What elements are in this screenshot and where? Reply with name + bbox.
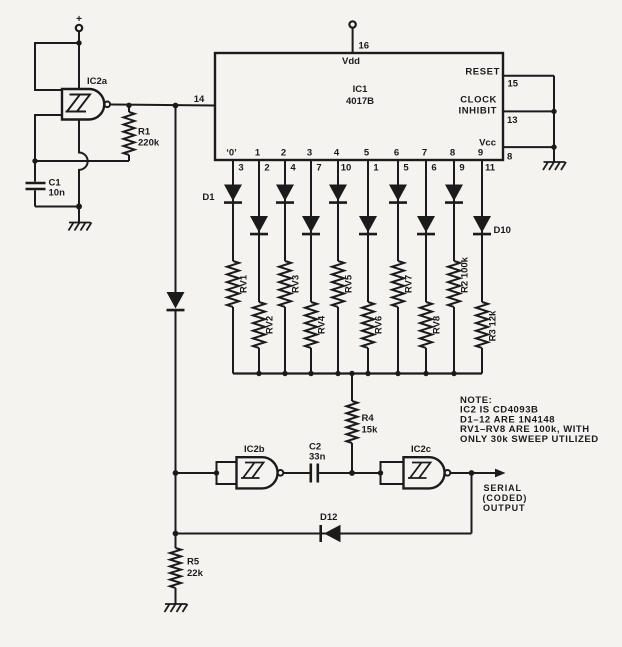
svg-text:2: 2 — [281, 148, 286, 159]
node R5 top junction — [173, 531, 179, 537]
svg-text:R3 12k: R3 12k — [488, 310, 499, 341]
svg-text:15: 15 — [508, 79, 519, 90]
svg-text:RV6: RV6 — [374, 316, 385, 334]
wire pin 8 — [503, 147, 554, 162]
node R1 top junction — [126, 103, 131, 108]
wire output column pin 2 — [258, 160, 260, 374]
svg-text:R2 100k: R2 100k — [460, 256, 471, 293]
svg-text:D1: D1 — [202, 192, 215, 203]
resistor RV4 — [305, 302, 328, 348]
diode D7 — [389, 185, 407, 203]
node RC junction — [32, 158, 37, 163]
wire IC2c output — [450, 472, 471, 474]
wire supply vertical through IC2a — [79, 31, 88, 222]
svg-text:IC2c: IC2c — [411, 444, 431, 455]
resistor R2 100k — [448, 256, 471, 307]
svg-text:IC2b: IC2b — [244, 444, 265, 455]
svg-text:(CODED): (CODED) — [483, 493, 528, 503]
wire clock line long vertical — [175, 106, 177, 534]
svg-text:RV7: RV7 — [404, 275, 415, 293]
wire output down to D12 line — [471, 473, 473, 534]
node ground junction — [76, 204, 82, 210]
svg-text:15k: 15k — [362, 425, 379, 436]
resistor RV3 — [279, 261, 302, 307]
svg-text:R1: R1 — [138, 127, 151, 138]
resistor R4 — [347, 374, 379, 474]
svg-text:RV8: RV8 — [432, 316, 443, 334]
node IC2b input junction — [214, 470, 219, 475]
ground GND1 — [69, 223, 92, 231]
node clock line junction — [173, 103, 179, 109]
wire to IC2a top input — [35, 43, 79, 90]
svg-text:6: 6 — [394, 148, 399, 159]
svg-text:22k: 22k — [187, 568, 204, 579]
pin 14 label — [194, 94, 205, 105]
resistor RV7 — [392, 261, 415, 307]
wire C1 bottom to ground node — [35, 206, 79, 208]
wire C2 to IC2c inputs — [319, 472, 380, 474]
svg-text:16: 16 — [359, 41, 370, 52]
diode D3 — [276, 185, 294, 203]
svg-text:13: 13 — [507, 115, 518, 126]
svg-text:CLOCK: CLOCK — [460, 95, 497, 106]
resistor R1 — [124, 106, 160, 162]
node supply junction — [76, 40, 81, 45]
serial output label — [483, 483, 528, 513]
svg-text:R4: R4 — [362, 413, 375, 424]
svg-text:9: 9 — [478, 148, 483, 159]
svg-text:1: 1 — [255, 148, 261, 159]
diode D9 — [445, 185, 463, 203]
svg-text:8: 8 — [507, 152, 512, 163]
svg-text:RV3: RV3 — [291, 275, 302, 293]
diode D5 — [329, 185, 347, 203]
wire IC2a output to IC1 pin 14 — [110, 105, 215, 106]
wire output column pin 3 — [232, 160, 234, 374]
svg-text:RV4: RV4 — [317, 315, 328, 334]
pin 16 terminal — [349, 21, 369, 53]
wire output column pin 9 — [453, 160, 455, 374]
svg-text:INHIBIT: INHIBIT — [458, 106, 497, 117]
wire IC2a bottom input to RC node — [35, 115, 62, 161]
resistor RV8 — [420, 302, 443, 348]
capacitor C2 — [309, 442, 326, 483]
wire right ground rail — [553, 76, 555, 162]
op-amp IC2b nand schmitt gate — [237, 444, 284, 488]
resistor RV2 — [253, 302, 276, 348]
svg-text:220k: 220k — [138, 138, 160, 149]
diode D4 — [302, 216, 320, 234]
svg-text:4: 4 — [334, 148, 340, 159]
wire pin 15 — [503, 76, 554, 90]
svg-text:1: 1 — [373, 163, 379, 174]
svg-text:IC2a: IC2a — [87, 76, 108, 87]
wire output column pin 5 — [397, 160, 399, 374]
resistor RV5 — [332, 261, 355, 307]
svg-text:14: 14 — [194, 94, 205, 105]
node output junction — [469, 470, 475, 476]
svg-text:9: 9 — [459, 163, 464, 174]
resistor R5 — [170, 534, 204, 605]
diode D11 — [167, 292, 185, 310]
svg-text:10n: 10n — [49, 188, 66, 199]
svg-text:6: 6 — [431, 163, 436, 174]
svg-text:Vdd: Vdd — [342, 56, 360, 67]
op-amp IC2a nand schmitt gate — [62, 76, 110, 120]
wire IC2b output to C2 — [283, 472, 309, 474]
wire output column pin 11 — [481, 160, 483, 374]
diode D8 — [417, 216, 435, 234]
wire output column pin 1 — [367, 160, 369, 374]
svg-text:8: 8 — [450, 148, 455, 159]
IC1 bottom pin numbers — [238, 163, 495, 174]
ground GND3 — [165, 604, 188, 612]
svg-text:7: 7 — [316, 163, 321, 174]
resistor RV1 — [227, 261, 250, 307]
diode D1 — [202, 185, 242, 204]
svg-text:RV1: RV1 — [239, 274, 250, 293]
wire output column pin 6 — [425, 160, 427, 374]
wire RC node to R1 bottom with hop over supply line — [35, 160, 129, 162]
svg-text:IC1: IC1 — [353, 84, 369, 95]
svg-text:RV5: RV5 — [344, 274, 355, 293]
wire output column pin 10 — [337, 160, 339, 374]
resistor RV6 — [362, 302, 385, 348]
svg-text:‘0’: ‘0’ — [226, 148, 237, 159]
svg-text:+: + — [76, 14, 82, 25]
diode D12 — [320, 512, 341, 542]
junction dots on bus — [256, 371, 456, 376]
note text block — [460, 395, 599, 445]
svg-text:7: 7 — [422, 148, 427, 159]
serial output arrow — [472, 469, 506, 478]
svg-text:D12: D12 — [320, 512, 337, 523]
svg-text:ONLY 30k SWEEP UTILIZED: ONLY 30k SWEEP UTILIZED — [460, 434, 599, 445]
wire pin 13 — [503, 111, 554, 126]
svg-text:OUTPUT: OUTPUT — [483, 503, 525, 513]
svg-text:4017B: 4017B — [346, 96, 374, 107]
svg-text:11: 11 — [485, 163, 496, 174]
wire output column pin 7 — [310, 160, 312, 374]
node pin13 junction — [551, 109, 556, 114]
resistor R3 12k — [476, 302, 499, 348]
node IC2c input junction — [378, 470, 383, 475]
op-amp IC2c nand schmitt gate — [404, 444, 451, 488]
diode D6 — [359, 216, 377, 234]
svg-text:33n: 33n — [309, 452, 326, 463]
wire IC2b input bar — [217, 462, 237, 484]
svg-text:R5: R5 — [187, 557, 200, 568]
IC1 output labels 0-9 — [226, 148, 483, 159]
svg-text:2: 2 — [264, 163, 269, 174]
wire output column pin 4 — [284, 160, 286, 374]
svg-text:5: 5 — [364, 148, 370, 159]
IC1 4017B body — [215, 53, 503, 160]
node pin8 junction — [551, 144, 556, 149]
svg-text:4: 4 — [290, 163, 296, 174]
svg-text:SERIAL: SERIAL — [484, 483, 522, 493]
svg-text:D10: D10 — [494, 225, 511, 236]
svg-text:10: 10 — [341, 163, 352, 174]
supply + terminal — [76, 14, 82, 31]
ground GND2 — [543, 162, 566, 170]
wire D12 feedback line — [176, 533, 472, 535]
diode D2 — [250, 216, 268, 234]
wire IC2c input bar — [381, 462, 404, 484]
svg-text:5: 5 — [403, 163, 409, 174]
svg-text:3: 3 — [307, 148, 312, 159]
diode D10 — [473, 216, 511, 236]
node IC2b feed junction — [173, 470, 179, 476]
svg-text:RV2: RV2 — [265, 316, 276, 334]
node R4 bottom junction — [349, 470, 355, 476]
svg-text:RESET: RESET — [465, 67, 500, 78]
wire to IC2b inputs — [176, 472, 217, 474]
wire bottom bus joining outputs — [233, 372, 482, 374]
svg-text:3: 3 — [238, 163, 243, 174]
capacitor C1 — [26, 161, 66, 207]
